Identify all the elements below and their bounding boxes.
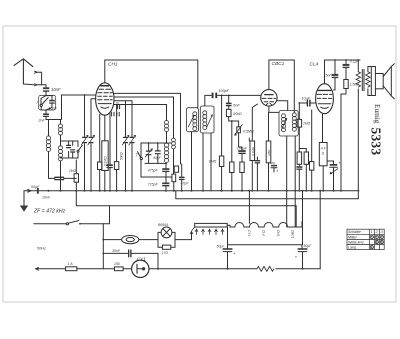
table dots bbox=[370, 235, 383, 248]
osc band switch bbox=[135, 143, 172, 177]
svg-text:B6954: B6954 bbox=[158, 223, 168, 227]
svg-text:+: + bbox=[276, 168, 279, 173]
antenna plug connectors bbox=[35, 71, 47, 87]
page frame bbox=[3, 26, 396, 302]
IFT2 drops heater bbox=[287, 136, 296, 227]
svg-text:1MΩ: 1MΩ bbox=[267, 149, 271, 156]
PSU output line bbox=[149, 266, 320, 271]
svg-text:Mittel: Mittel bbox=[348, 235, 357, 239]
svg-text:1MΩ: 1MΩ bbox=[303, 121, 311, 125]
svg-text:725pF: 725pF bbox=[148, 183, 159, 187]
pickup jack element bbox=[230, 120, 234, 192]
svg-text:1 A: 1 A bbox=[68, 262, 74, 266]
wire 100pF grid line bbox=[205, 95, 261, 106]
CBC1 top wire bbox=[269, 60, 294, 112]
svg-text:50kΩ: 50kΩ bbox=[119, 152, 123, 160]
resistor 1MΩ input bbox=[69, 160, 79, 191]
CL4 grid wire with cap 10uF bbox=[298, 96, 315, 106]
padder loop top bbox=[141, 142, 172, 144]
vertical x116.6 with resistor 50k bbox=[114, 105, 123, 192]
CL4 top wire bbox=[325, 60, 361, 84]
tall resistor screen 0.1M bbox=[102, 115, 108, 191]
grid line y100.8 bbox=[114, 100, 132, 102]
heater chain humps bbox=[227, 222, 302, 228]
CBC1 right wire bbox=[277, 101, 288, 111]
resistor x242 AF bbox=[240, 154, 244, 192]
resistor osc grid bbox=[172, 174, 176, 191]
wire coil L1 to cap bbox=[48, 152, 50, 178]
table text bbox=[348, 230, 383, 249]
svg-text:10nF: 10nF bbox=[49, 106, 58, 110]
vertical x132 osc tuning bbox=[131, 101, 133, 191]
speaker bbox=[371, 64, 394, 99]
switch line L3 mains switch bbox=[34, 206, 110, 225]
svg-text:CL4: CL4 bbox=[261, 230, 265, 236]
osc main coil lower bbox=[164, 143, 168, 162]
cap 475pF bbox=[148, 163, 170, 182]
wire osc coil mid bbox=[166, 132, 168, 144]
barretter lamp bbox=[158, 223, 192, 255]
wire node to coils bbox=[46, 117, 61, 120]
cap 725pF bbox=[148, 183, 170, 192]
svg-text:10nF: 10nF bbox=[51, 87, 61, 92]
CBC1 bottom wire bbox=[269, 106, 279, 112]
trimmer cap osc2 bbox=[129, 135, 136, 145]
svg-text:5nF: 5nF bbox=[233, 103, 240, 107]
capacitor 10nF antenna bbox=[43, 87, 49, 95]
svg-text:50µF: 50µF bbox=[304, 244, 313, 248]
diode load resistor 0.1M bbox=[250, 104, 258, 191]
svg-text:3: 3 bbox=[381, 230, 383, 234]
wire L2 to bus bbox=[60, 161, 62, 191]
svg-text:17Ω: 17Ω bbox=[162, 251, 169, 255]
small cap 2pF near tube bbox=[112, 101, 120, 116]
vertical x320.2 from bus bbox=[319, 191, 321, 269]
line y244.7 bbox=[228, 227, 303, 249]
IFT1 box secondary bbox=[200, 106, 214, 133]
svg-text:+: + bbox=[295, 255, 298, 260]
svg-text:1MΩ: 1MΩ bbox=[209, 160, 217, 164]
IFT1 box primary bbox=[186, 108, 198, 132]
svg-text:1: 1 bbox=[371, 230, 373, 234]
CL4 anode bypass 5nF filled bbox=[326, 59, 339, 90]
resistor 15k small bbox=[174, 166, 178, 172]
volume pot 0.5M bbox=[229, 117, 254, 136]
trimmer padder bbox=[145, 143, 152, 163]
heater line L1 bbox=[176, 191, 358, 199]
wire antenna coil branch bbox=[48, 120, 50, 137]
tube CY1 rectifier bbox=[132, 260, 149, 277]
top bus B+ left bbox=[105, 60, 198, 108]
svg-text:CY1: CY1 bbox=[137, 257, 147, 263]
bypass cap filled bbox=[107, 114, 113, 192]
resistor grid leak CL4 bbox=[297, 103, 310, 152]
coil L2 lower bbox=[59, 146, 63, 161]
resistor x311.7 bbox=[310, 110, 314, 191]
svg-text:5nF: 5nF bbox=[326, 73, 333, 77]
cathode electro and pot bbox=[327, 160, 341, 191]
grid line y95 bbox=[62, 95, 96, 120]
svg-text:10nF: 10nF bbox=[42, 195, 51, 199]
svg-text:150: 150 bbox=[114, 262, 120, 266]
electro C1 bbox=[217, 245, 237, 269]
IFT2 box bbox=[279, 111, 298, 137]
svg-text:0,1MΩ: 0,1MΩ bbox=[251, 146, 255, 156]
antenna bbox=[14, 59, 33, 84]
tube CH1 bbox=[96, 60, 114, 115]
capacitor 2nF bbox=[38, 110, 49, 122]
svg-text:Schalter: Schalter bbox=[348, 230, 362, 234]
electro 100uF plus bbox=[270, 161, 279, 173]
svg-text:Eumig: Eumig bbox=[373, 104, 382, 124]
osc coil upper bbox=[165, 120, 169, 131]
padder loop bottom bbox=[145, 162, 167, 164]
node dots padder bbox=[148, 142, 150, 144]
wave switch S1 box bbox=[36, 95, 56, 110]
trimmer cap C-tune2 bbox=[88, 135, 95, 145]
svg-text:CY1: CY1 bbox=[247, 230, 251, 236]
svg-text:50kΩ: 50kΩ bbox=[233, 112, 242, 116]
node dot grid bbox=[84, 94, 86, 96]
mains line with fuse bbox=[36, 262, 115, 271]
svg-text:2nF: 2nF bbox=[38, 118, 46, 122]
twin resistors near bus bbox=[296, 152, 302, 191]
svg-text:CBC1: CBC1 bbox=[290, 230, 294, 239]
CL4 cathode resistor tall bbox=[319, 114, 327, 192]
IFT1 drops bbox=[192, 132, 212, 191]
cap small filled at 257.4 bbox=[255, 157, 260, 191]
cap 5nF bbox=[226, 95, 241, 109]
svg-text:CL4: CL4 bbox=[310, 62, 319, 68]
osc coil2 bbox=[172, 138, 176, 149]
cap 30nF bbox=[102, 249, 159, 270]
svg-text:+: + bbox=[233, 251, 236, 256]
svg-text:50Hz: 50Hz bbox=[37, 246, 46, 250]
dial lamp bbox=[102, 224, 158, 269]
svg-text:H.FΩ: H.FΩ bbox=[321, 147, 327, 156]
resistor cathode small bbox=[98, 162, 102, 191]
bus junction dots bbox=[48, 190, 343, 192]
vertical x125.5 osc tuning bbox=[125, 101, 127, 191]
grid line y93.4 to osc bbox=[114, 93, 181, 164]
svg-text:Welle kHz: Welle kHz bbox=[348, 240, 364, 244]
cap 40pF bbox=[153, 143, 162, 163]
wire osc coil2 down bbox=[173, 149, 175, 174]
svg-text:40pF: 40pF bbox=[153, 156, 162, 160]
svg-text:10µF: 10µF bbox=[302, 96, 311, 100]
grid line y97 to osc coil2 bbox=[114, 97, 174, 138]
vertical x84.5 tuning bbox=[84, 95, 86, 191]
ground bus bbox=[24, 188, 359, 199]
coil L1 left bbox=[46, 136, 50, 152]
resistor 1.5k bbox=[341, 80, 359, 192]
wire L2 middle bbox=[60, 135, 62, 146]
cap 100uF AF coupling bbox=[237, 133, 248, 154]
tube CBC1 bbox=[261, 90, 277, 106]
vertical x302.5 from bus bbox=[302, 191, 304, 245]
heater chain labels bbox=[247, 230, 294, 239]
svg-text:100µF: 100µF bbox=[237, 147, 248, 151]
cap 100pF bbox=[212, 89, 230, 98]
grid line y104.5 bbox=[114, 105, 167, 121]
svg-text:100: 100 bbox=[270, 161, 275, 165]
svg-text:100pF: 100pF bbox=[219, 89, 230, 93]
svg-text:ZF = 472 kHz: ZF = 472 kHz bbox=[33, 208, 66, 214]
grid line y98.7 short bbox=[91, 98, 96, 100]
output transformer bbox=[356, 59, 371, 199]
resistor 150 bbox=[114, 262, 131, 271]
svg-text:30nF: 30nF bbox=[112, 249, 121, 253]
coil L2 upper bbox=[60, 120, 62, 125]
node dots grid line bbox=[221, 95, 223, 97]
trimmer cap C-tune1 bbox=[81, 135, 88, 145]
capacitor 50pF bbox=[31, 177, 76, 189]
svg-text:475pF: 475pF bbox=[148, 168, 159, 172]
svg-text:Lang: Lang bbox=[348, 246, 356, 250]
resistor 50k bbox=[226, 109, 242, 116]
tube CH1 cathode pin bbox=[99, 114, 101, 162]
cap 47pF bbox=[179, 164, 189, 191]
cap 0.1uF top filled bbox=[343, 59, 360, 79]
resistor 1M diode bbox=[266, 112, 271, 191]
table bbox=[347, 229, 384, 249]
wire antenna down bbox=[23, 83, 34, 86]
ground symbol bbox=[20, 191, 28, 212]
band caps box bbox=[61, 141, 83, 158]
svg-text:7: 7 bbox=[135, 153, 138, 158]
resistor 1M osc inj bbox=[209, 95, 224, 191]
vertical x249.3 top stub bbox=[248, 138, 250, 141]
svg-text:CH1: CH1 bbox=[276, 230, 280, 237]
svg-text:5333: 5333 bbox=[369, 128, 384, 156]
svg-text:2: 2 bbox=[375, 230, 378, 234]
electro C2 bbox=[295, 244, 312, 269]
selector feed vertical bbox=[248, 191, 250, 224]
vertical x91 tuning bbox=[90, 99, 92, 191]
heater line L2 bbox=[76, 191, 296, 227]
svg-text:1MΩ: 1MΩ bbox=[69, 169, 77, 173]
svg-text:47pF: 47pF bbox=[181, 181, 190, 185]
svg-text:CH1: CH1 bbox=[108, 62, 118, 68]
selector arrows bbox=[190, 229, 224, 234]
tube CL4 bbox=[316, 84, 334, 114]
heater dropper bar bbox=[195, 223, 228, 227]
svg-text:50µF: 50µF bbox=[217, 245, 226, 249]
trimmer cap osc1 bbox=[122, 135, 129, 145]
svg-text:CBC1: CBC1 bbox=[272, 61, 285, 67]
